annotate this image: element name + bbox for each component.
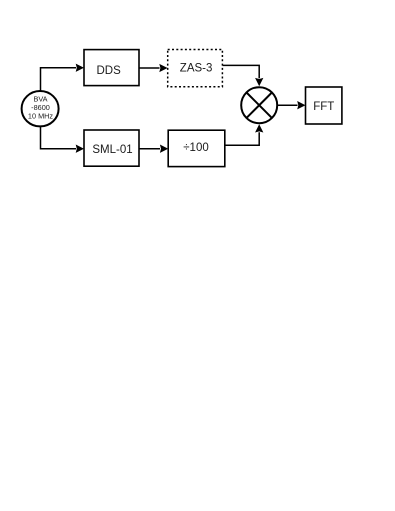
wire W3: ZAS-3 output to mixer RF input [223,65,264,86]
wire W5: oscillator bottom to SML-01 input [41,126,85,152]
svg-text:÷100: ÷100 [183,142,209,154]
wire W2: DDS output to ZAS-3 input [139,64,168,72]
svg-text:DDS: DDS [96,65,121,77]
block FFT analyser [306,87,342,124]
block divider ÷100 [168,130,225,166]
mixer M1 [241,87,277,123]
wire W4: mixer IF output to FFT [277,101,305,109]
block DDS [84,50,139,86]
svg-text:FFT: FFT [313,101,334,113]
wire W7: divider output to mixer LO input [225,124,264,145]
svg-text:10 MHz: 10 MHz [28,112,53,121]
wire W1: oscillator top to DDS input [41,64,85,91]
svg-text:ZAS-3: ZAS-3 [180,62,213,74]
block SML-01 signal generator [84,130,139,166]
svg-text:-8600: -8600 [31,103,50,112]
block ZAS-3 (dashed amplifier) [168,50,223,87]
wire W6: SML-01 output to divider input [139,145,168,153]
oscillator BVA-8600 10 MHz reference [22,91,59,126]
svg-text:SML-01: SML-01 [92,144,132,156]
